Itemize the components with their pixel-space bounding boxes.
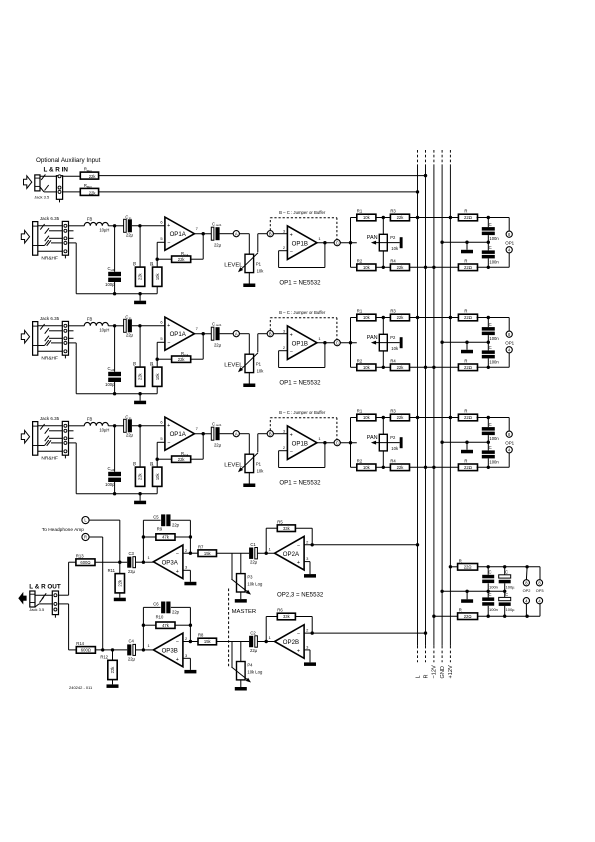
svg-text:600Ω: 600Ω — [81, 648, 91, 653]
svg-text:R5: R5 — [277, 519, 283, 524]
svg-text:R4: R4 — [390, 259, 396, 264]
svg-text:22k: 22k — [110, 666, 115, 674]
svg-text:−: − — [176, 551, 179, 557]
svg-text:100p: 100p — [105, 282, 115, 287]
svg-text:22k: 22k — [178, 257, 186, 262]
svg-text:FB: FB — [87, 217, 93, 222]
svg-text:R11: R11 — [108, 568, 116, 573]
svg-text:OP1B: OP1B — [292, 240, 308, 247]
svg-text:R: R — [423, 674, 429, 678]
svg-text:Jack 6.35: Jack 6.35 — [40, 216, 60, 221]
svg-text:600Ω: 600Ω — [80, 560, 90, 565]
svg-text:R8: R8 — [198, 633, 204, 638]
svg-text:22µ: 22µ — [126, 233, 134, 238]
svg-text:GND: GND — [440, 666, 446, 678]
svg-text:R14: R14 — [76, 641, 84, 646]
svg-text:22k: 22k — [397, 215, 405, 220]
svg-text:100n: 100n — [489, 584, 498, 589]
svg-text:R: R — [464, 258, 467, 263]
svg-text:10k Log: 10k Log — [247, 581, 263, 586]
svg-text:R: R — [459, 608, 462, 613]
svg-text:C1: C1 — [250, 542, 256, 547]
svg-text:MASTER: MASTER — [232, 609, 257, 615]
svg-text:R9: R9 — [157, 526, 163, 531]
svg-text:+: + — [176, 569, 179, 575]
svg-text:100µ: 100µ — [506, 584, 516, 589]
svg-text:out1: out1 — [216, 223, 222, 227]
svg-text:aux: aux — [87, 168, 92, 172]
svg-text:−: − — [167, 240, 170, 246]
svg-text:+: + — [297, 560, 300, 566]
svg-text:15k: 15k — [204, 551, 212, 556]
svg-text:22µ: 22µ — [250, 648, 258, 653]
svg-text:R12: R12 — [100, 655, 108, 660]
svg-text:C3: C3 — [129, 551, 135, 556]
svg-text:OP1A: OP1A — [170, 231, 187, 238]
svg-text:P1: P1 — [256, 261, 262, 266]
svg-text:OP1: OP1 — [505, 241, 514, 246]
svg-text:C: C — [505, 592, 508, 597]
svg-text:33k: 33k — [283, 614, 291, 619]
svg-text:C: C — [125, 214, 128, 219]
svg-text:L & R OUT: L & R OUT — [29, 584, 61, 591]
svg-text:R13: R13 — [76, 553, 84, 558]
svg-text:22k: 22k — [117, 579, 122, 587]
svg-text:OP1 = NE5532: OP1 = NE5532 — [279, 280, 321, 287]
svg-text:22p: 22p — [172, 609, 180, 614]
svg-text:C: C — [505, 570, 508, 575]
svg-text:100µ: 100µ — [506, 607, 516, 612]
svg-text:R: R — [459, 558, 462, 563]
svg-text:C4: C4 — [129, 639, 135, 644]
svg-text:C6: C6 — [153, 602, 159, 607]
svg-text:To Headphone Amp: To Headphone Amp — [42, 527, 84, 533]
svg-text:10k Log: 10k Log — [247, 669, 263, 674]
svg-text:240242 - 011: 240242 - 011 — [69, 685, 93, 690]
svg-text:OP3A: OP3A — [162, 559, 179, 566]
svg-text:PAN: PAN — [367, 235, 378, 241]
svg-text:OP3: OP3 — [536, 588, 544, 593]
svg-text:−12V: −12V — [432, 665, 438, 678]
svg-text:C: C — [212, 221, 215, 226]
svg-text:OP2B: OP2B — [283, 639, 299, 646]
svg-text:22k: 22k — [89, 190, 97, 195]
svg-text:Optional Auxiliary Input: Optional Auxiliary Input — [36, 157, 101, 164]
svg-text:A: A — [235, 231, 238, 236]
svg-text:100n: 100n — [489, 259, 499, 264]
svg-text:+: + — [297, 649, 300, 655]
svg-text:in: in — [129, 216, 132, 220]
svg-text:47k: 47k — [162, 623, 170, 628]
svg-text:R6: R6 — [277, 608, 283, 613]
svg-text:10µH: 10µH — [99, 228, 109, 233]
svg-text:C: C — [489, 570, 492, 575]
svg-text:P4: P4 — [247, 663, 253, 668]
svg-text:C: C — [489, 222, 492, 227]
svg-text:+: + — [167, 223, 170, 229]
svg-text:OP2: OP2 — [523, 588, 531, 593]
svg-text:F1: F1 — [150, 263, 154, 267]
svg-text:C2: C2 — [250, 630, 256, 635]
svg-text:R10: R10 — [156, 615, 164, 620]
svg-text:22p: 22p — [172, 522, 180, 527]
svg-text:100n: 100n — [489, 607, 498, 612]
svg-text:10k: 10k — [155, 272, 160, 280]
svg-text:47k: 47k — [162, 535, 170, 540]
svg-text:Jack 3.5: Jack 3.5 — [29, 607, 45, 612]
svg-text:L: L — [415, 675, 421, 678]
svg-text:R7: R7 — [198, 544, 204, 549]
svg-text:22k: 22k — [89, 174, 97, 179]
svg-text:C: C — [336, 240, 339, 245]
svg-text:22µ: 22µ — [250, 560, 258, 565]
svg-text:R1: R1 — [357, 209, 363, 214]
svg-text:22k: 22k — [397, 265, 405, 270]
svg-text:OP3B: OP3B — [162, 648, 178, 655]
svg-text:22k: 22k — [138, 272, 143, 280]
svg-text:22Ω: 22Ω — [464, 614, 472, 619]
svg-text:HF: HF — [111, 268, 115, 272]
svg-text:C: C — [489, 245, 492, 250]
svg-text:P2: P2 — [390, 235, 396, 240]
svg-text:R: R — [464, 209, 467, 214]
svg-text:Jack 3.5: Jack 3.5 — [34, 194, 50, 199]
svg-text:B – C : Jumper or Buffer: B – C : Jumper or Buffer — [279, 210, 326, 215]
svg-text:P3: P3 — [247, 575, 253, 580]
svg-text:R: R — [84, 535, 87, 540]
svg-text:NR&HF: NR&HF — [41, 255, 58, 261]
svg-text:33k: 33k — [283, 526, 291, 531]
svg-text:R2: R2 — [357, 259, 363, 264]
svg-text:+: + — [176, 657, 179, 663]
svg-text:22Ω: 22Ω — [464, 215, 472, 220]
svg-text:−: − — [297, 543, 300, 549]
svg-text:−: − — [290, 250, 293, 256]
svg-text:10k: 10k — [391, 246, 399, 251]
svg-text:R3: R3 — [390, 209, 396, 214]
svg-text:B: B — [269, 231, 272, 236]
svg-text:100n: 100n — [489, 236, 499, 241]
svg-text:−: − — [297, 631, 300, 637]
svg-text:aux: aux — [87, 185, 92, 189]
svg-text:10k: 10k — [257, 268, 265, 273]
svg-text:10k: 10k — [363, 265, 371, 270]
svg-text:CA: CA — [184, 253, 188, 257]
svg-text:22Ω: 22Ω — [464, 265, 472, 270]
svg-text:+: + — [290, 232, 293, 238]
svg-text:−: − — [176, 640, 179, 646]
svg-text:22µ: 22µ — [214, 243, 222, 248]
svg-text:+12V: +12V — [448, 665, 454, 678]
svg-text:22µ: 22µ — [128, 657, 136, 662]
svg-text:10k: 10k — [363, 215, 371, 220]
svg-text:22µ: 22µ — [128, 569, 136, 574]
svg-text:LEVEL: LEVEL — [224, 262, 243, 268]
svg-text:22Ω: 22Ω — [464, 565, 472, 570]
svg-text:L & R IN: L & R IN — [44, 167, 69, 174]
svg-text:C5: C5 — [153, 515, 159, 520]
svg-text:C: C — [489, 592, 492, 597]
svg-text:OP2,3 = NE5532: OP2,3 = NE5532 — [277, 591, 324, 598]
svg-text:OP2A: OP2A — [283, 551, 300, 558]
svg-text:15k: 15k — [204, 639, 212, 644]
